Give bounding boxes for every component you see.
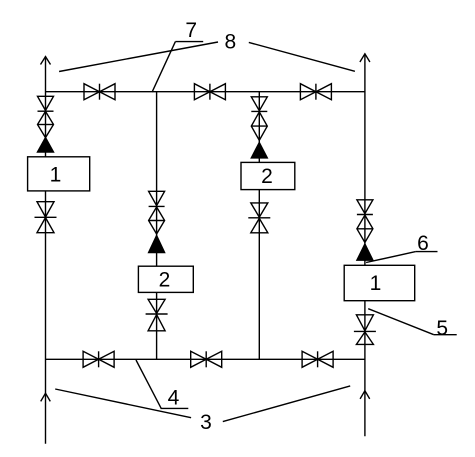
svg-text:2: 2 [261, 165, 273, 188]
svg-text:6: 6 [417, 232, 429, 255]
svg-text:5: 5 [436, 317, 448, 340]
svg-text:2: 2 [159, 269, 171, 292]
svg-text:1: 1 [50, 164, 62, 187]
svg-text:4: 4 [168, 387, 180, 410]
svg-text:7: 7 [185, 19, 197, 42]
svg-text:1: 1 [370, 272, 382, 295]
svg-text:3: 3 [200, 411, 212, 434]
svg-text:8: 8 [225, 31, 237, 54]
